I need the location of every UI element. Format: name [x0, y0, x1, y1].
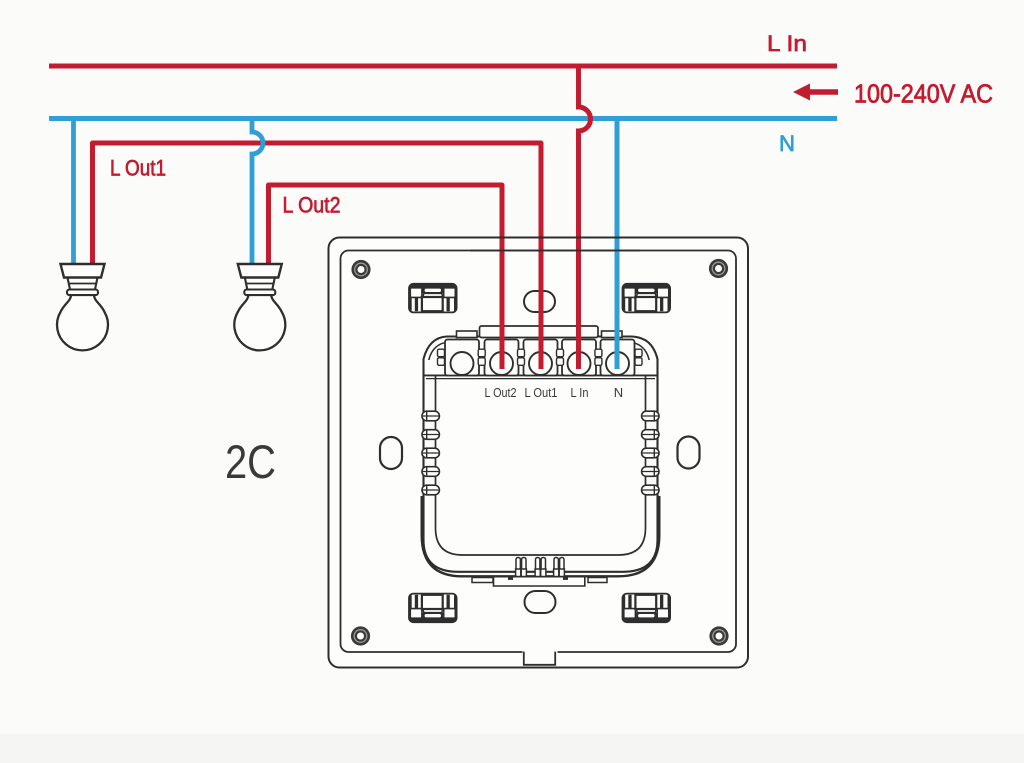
screw bottom-right: [709, 626, 728, 645]
screw bottom-left: [351, 626, 370, 645]
side beads right: [642, 411, 659, 495]
screw top-right: [709, 259, 728, 278]
wire N main (blue): [49, 116, 837, 121]
top tab right: [602, 331, 623, 338]
side beads left: [422, 411, 439, 495]
wire L main (red): [49, 64, 837, 69]
svg-text:L Out1: L Out1: [525, 385, 558, 400]
wire L Out1 run: [93, 143, 542, 369]
oval top center: [524, 291, 555, 312]
wire N drop: [615, 119, 620, 370]
module bottom shadow line: [422, 496, 660, 576]
terminal circles: [451, 352, 630, 375]
terminal labels: [485, 385, 624, 400]
svg-text:100-240V AC: 100-240V AC: [854, 79, 993, 109]
svg-text:L In: L In: [571, 385, 589, 400]
oval bottom center: [525, 591, 556, 613]
bottom gray bar: [0, 734, 1024, 763]
terminal nubs: [438, 349, 445, 365]
bottom tray: [494, 578, 585, 587]
terminal squares: [445, 340, 635, 376]
svg-text:L Out2: L Out2: [485, 385, 517, 400]
arrow 100-240V AC: [809, 89, 838, 95]
svg-text:L Out2: L Out2: [283, 193, 341, 218]
clip top-right: [623, 284, 671, 313]
svg-text:N: N: [779, 131, 795, 156]
svg-text:2C: 2C: [225, 435, 276, 488]
oval left: [380, 437, 402, 469]
terminal L Out1: [524, 340, 558, 376]
bulb 1: [57, 264, 108, 350]
plate bottom notch: [523, 645, 558, 658]
wire bulb2 neutral with hop: [252, 119, 263, 267]
plate frame lines redrawn over wires: [470, 237, 640, 239]
svg-text:L In: L In: [767, 31, 807, 56]
oval right: [678, 437, 700, 469]
module feet: [516, 558, 527, 577]
terminal block bottom line: [425, 374, 657, 376]
tray nubs: [508, 577, 513, 580]
plate outer frame: [329, 238, 749, 668]
top strip above terminals: [480, 326, 599, 338]
wire L In drop with hop: [579, 66, 591, 369]
terminal N: [601, 340, 635, 376]
svg-text:L Out1: L Out1: [110, 156, 166, 181]
bottom tray right tab: [588, 578, 607, 583]
module top corner double lines: [429, 342, 449, 360]
top tab left: [457, 331, 478, 338]
clip bottom-left: [409, 594, 457, 623]
bottom tray left tab: [472, 578, 493, 583]
clip top-left: [409, 284, 457, 313]
bulb 2: [234, 264, 285, 350]
plate inner frame: [341, 251, 737, 653]
svg-text:N: N: [614, 385, 623, 400]
terminal L In: [562, 340, 596, 376]
wire bulb1 neutral: [71, 119, 76, 267]
terminal L Out2: [485, 340, 519, 376]
wire L Out2 run: [269, 185, 503, 369]
terminal T0 (unused): [445, 340, 479, 376]
clip bottom-right: [623, 594, 671, 623]
screw top-left: [351, 260, 370, 279]
module inner outline: [436, 376, 646, 555]
module outer body: [424, 337, 658, 572]
